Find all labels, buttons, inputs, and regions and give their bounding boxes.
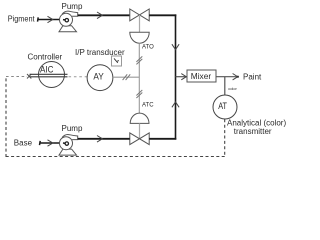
pump hub <box>65 19 68 22</box>
svg-text:Paint: Paint <box>243 72 262 81</box>
svg-text:Pigment: Pigment <box>8 15 36 24</box>
controller AIC panel lines <box>30 73 68 75</box>
svg-text:ATO: ATO <box>142 45 154 51</box>
signal feedback dashed into controller <box>6 76 27 78</box>
signal AIC to AY dashed <box>69 76 87 78</box>
valve V2 stem <box>139 123 141 138</box>
valve V1 body <box>130 9 149 21</box>
wire pigment suction <box>38 17 66 21</box>
node x junction at AIC <box>27 74 31 79</box>
transducer AY <box>87 65 113 91</box>
pump volute outline <box>62 11 78 16</box>
signal feedback dashed left <box>5 76 7 157</box>
svg-text:Base: Base <box>14 139 33 148</box>
signal AT feedback dashed down <box>224 119 226 156</box>
pneumatic slashes lower <box>136 90 142 98</box>
wire base suction <box>40 141 66 145</box>
wire base into hub <box>63 142 65 144</box>
wire pigment discharge <box>78 14 130 16</box>
node junction dot <box>237 76 239 78</box>
svg-text:I/P transducer: I/P transducer <box>75 48 125 57</box>
flow arrow base <box>48 140 53 146</box>
signal pneumatic riser <box>138 43 140 113</box>
flow arrow up <box>172 102 179 107</box>
pump P2 <box>59 135 78 156</box>
svg-text:AT: AT <box>218 101 227 111</box>
svg-text:color: color <box>228 86 237 91</box>
svg-text:ATC: ATC <box>142 103 154 109</box>
signal feedback dashed bottom <box>6 156 225 158</box>
wire vertical pipe <box>175 14 177 139</box>
valve V1 stem <box>139 15 141 32</box>
wire sample line <box>224 77 226 96</box>
symbol box on AY <box>112 56 122 66</box>
valve V2 body <box>130 133 149 145</box>
wire mixer feed <box>176 76 187 78</box>
symbol glyph <box>114 58 119 62</box>
actuator ATO dome <box>130 32 149 43</box>
flow arrow down <box>172 44 179 49</box>
pneumatic slashes upper <box>136 56 142 64</box>
svg-text:Mixer: Mixer <box>191 71 212 81</box>
wire pigment into hub <box>63 19 65 21</box>
svg-text:Pump: Pump <box>62 124 83 133</box>
actuator ATC dome <box>130 113 149 123</box>
pump P1 <box>59 11 78 32</box>
pump casing <box>60 13 73 26</box>
pump volute fill <box>62 11 78 16</box>
pump stand <box>59 26 77 32</box>
mixer M1 <box>187 70 216 82</box>
svg-text:AY: AY <box>93 71 103 81</box>
flow arrow pigment <box>48 16 53 22</box>
signal AY pneumatic horizontal <box>113 76 139 78</box>
controller AIC <box>39 62 65 88</box>
svg-text:Pump: Pump <box>62 2 83 11</box>
flow arrow discharge <box>97 12 102 19</box>
wire bottom pipe to corner <box>149 138 176 140</box>
wire top pipe to corner <box>149 14 176 16</box>
wire mixer outlet <box>216 76 238 78</box>
svg-text:transmitter: transmitter <box>234 127 272 136</box>
transmitter AT <box>213 95 237 119</box>
svg-text:AIC: AIC <box>40 64 54 74</box>
wire base discharge <box>78 138 130 140</box>
svg-text:Controller: Controller <box>28 53 63 62</box>
flow arrow base discharge <box>97 136 102 143</box>
flow arrow mixer feed <box>181 74 186 80</box>
pneumatic slashes horizontal <box>123 74 131 80</box>
flow arrow paint <box>233 74 238 80</box>
